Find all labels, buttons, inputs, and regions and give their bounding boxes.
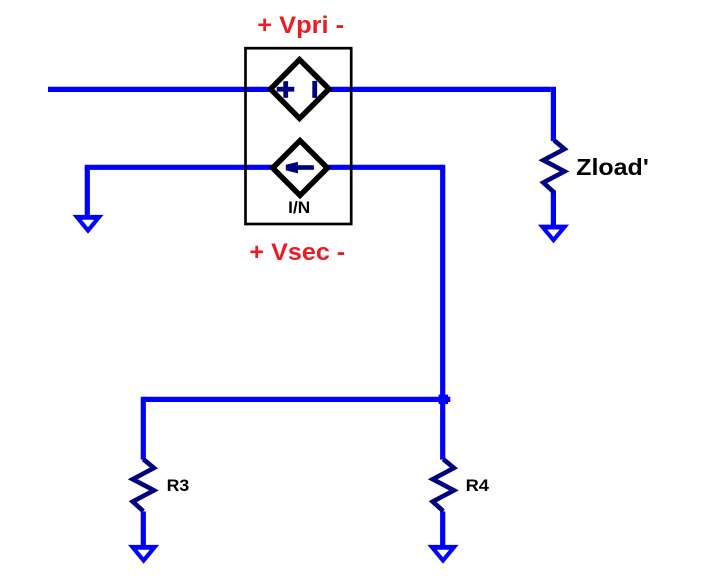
svg-text:I/N: I/N [288,198,310,217]
svg-text:Zload': Zload' [576,154,649,180]
svg-text:+ Vpri -: + Vpri - [257,12,344,39]
svg-text:R4: R4 [466,476,490,495]
svg-text:R3: R3 [167,476,190,495]
svg-text:+ Vsec -: + Vsec - [249,239,345,266]
